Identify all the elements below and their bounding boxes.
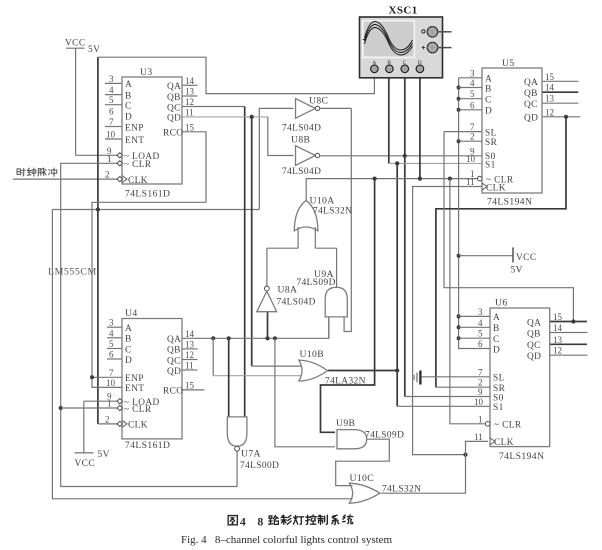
svg-text:14: 14: [185, 329, 195, 339]
svg-text:U10B: U10B: [300, 349, 325, 360]
svg-text:74LS04D: 74LS04D: [282, 124, 321, 134]
svg-text:S0: S0: [493, 393, 504, 403]
svg-text:C: C: [125, 345, 132, 355]
svg-text:QD: QD: [167, 367, 181, 377]
wire QA-U4 branch down to U9B input 2: [275, 338, 335, 447]
svg-text:CLK: CLK: [494, 438, 514, 448]
svg-text:D: D: [125, 356, 132, 366]
inverter U8C 74LS04D: [282, 96, 328, 134]
scope terminal C: [401, 60, 409, 72]
svg-text:5: 5: [109, 339, 114, 349]
svg-text:15: 15: [545, 72, 555, 82]
OR gate U10C 74LS32N (pointing right): [349, 473, 421, 503]
wire net U5 SL pin 7 from U6 QA feedback: [444, 132, 576, 324]
NAND gate U7A 74LS00D (pointing down): [227, 417, 279, 471]
svg-text:U3: U3: [140, 67, 153, 78]
wire VCC rail to U3 ~LOAD pin 9: [76, 154, 118, 156]
U6 CLK edge marker: [490, 438, 495, 445]
svg-text:CLK: CLK: [128, 176, 148, 186]
svg-text:6: 6: [109, 350, 114, 360]
wire U8A output to U10A input frame: [267, 227, 337, 286]
svg-text:QD: QD: [167, 114, 181, 124]
svg-text:VCC: VCC: [516, 253, 536, 263]
svg-text:RCO: RCO: [163, 129, 183, 139]
svg-text:SL: SL: [493, 374, 505, 384]
svg-text:QB: QB: [524, 89, 538, 99]
wire net QA U4 (pin 14) with branches: [182, 317, 329, 341]
svg-text:14: 14: [545, 83, 555, 93]
svg-text:7: 7: [470, 122, 475, 132]
svg-text:A: A: [493, 313, 500, 323]
svg-text:12: 12: [553, 346, 562, 356]
svg-text:6: 6: [109, 106, 114, 116]
svg-text:QC: QC: [527, 341, 541, 351]
svg-text:SR: SR: [485, 138, 498, 148]
svg-text:4: 4: [470, 78, 475, 88]
wire net QD U5 to U6 SR pin 2: [436, 115, 581, 388]
svg-text:7: 7: [109, 117, 114, 127]
wire bus y=209.5 from x=52.4 to U8C input riser: [52, 209, 259, 211]
scope knob 2: [422, 42, 438, 52]
svg-text:10: 10: [474, 397, 484, 407]
U5 ~CLR bubble: [477, 176, 482, 181]
node: clock pulse input wire to U3 CLK pin 2: [13, 178, 118, 180]
svg-text:15: 15: [185, 380, 195, 390]
shift register U5 74LS194N: [466, 58, 555, 208]
counter U3 74LS161D: [105, 67, 195, 200]
svg-text:15: 15: [553, 312, 563, 322]
wire net U8C input vertical from loop: [97, 57, 99, 209]
svg-text:14: 14: [185, 76, 195, 86]
svg-text:4: 4: [240, 517, 246, 529]
svg-text:~ CLR: ~ CLR: [494, 421, 522, 431]
wire net RCO U3 to U4 ENP/ENT: [90, 132, 206, 388]
svg-text:QB: QB: [167, 346, 181, 356]
wire net QC U3 down to U7A input 2: [182, 107, 245, 417]
U4 ~CLR bubble: [117, 405, 123, 410]
svg-text:CLK: CLK: [128, 421, 148, 431]
svg-text:VCC: VCC: [75, 459, 95, 469]
wire scope terminal B vertical to S1 line: [388, 70, 390, 163]
svg-text:1: 1: [107, 399, 112, 409]
svg-text:QD: QD: [524, 114, 538, 124]
wire net scope-A / U8C input loop (top): [98, 57, 375, 93]
wire scope terminal C vertical / S0 chain to U6 S0: [405, 70, 490, 397]
svg-text:74LS04D: 74LS04D: [277, 298, 316, 308]
wire U8C input riser: [259, 108, 293, 209]
svg-text:D: D: [125, 113, 132, 123]
svg-text:12: 12: [185, 350, 194, 360]
wire U6 output stubs: [550, 322, 588, 356]
svg-text:11: 11: [474, 432, 483, 442]
svg-text:ENP: ENP: [125, 123, 144, 133]
svg-text:10: 10: [466, 154, 476, 164]
svg-text:QA: QA: [167, 335, 181, 345]
svg-text:1: 1: [478, 414, 483, 424]
svg-text:7: 7: [109, 368, 114, 378]
svg-text:74LS09D: 74LS09D: [365, 431, 404, 441]
AND gate U9B 74LS09D (pointing right): [336, 418, 404, 449]
wire ~CLR branch down to U6 ~CLR pin 1: [450, 179, 486, 424]
shift register U6 74LS194N: [474, 298, 563, 463]
svg-text:74LS161D: 74LS161D: [125, 189, 170, 200]
U4 CLK bubble and edge marker: [117, 421, 123, 426]
svg-text:QC: QC: [167, 356, 181, 366]
svg-text:~ CLR: ~ CLR: [124, 160, 152, 170]
U3 ~CLR bubble: [117, 161, 123, 166]
svg-text:5V: 5V: [98, 450, 110, 460]
wire QA-U4 branch to U7A input 1: [228, 338, 230, 417]
svg-text:CLK: CLK: [486, 183, 506, 193]
wire QA-U4 branch to U10B input 2: [213, 338, 301, 375]
svg-text:12: 12: [545, 107, 554, 117]
svg-text:U10C: U10C: [350, 473, 375, 484]
wire U3 input stubs pins 3 4 5 7 10: [105, 83, 122, 139]
VCC rail (top-left 5V): [66, 48, 85, 155]
svg-text:U8B: U8B: [291, 135, 310, 146]
wire U10C output riser to U6 CLK pin 11: [381, 441, 488, 493]
node label: clock pulse (Chinese): [17, 168, 57, 176]
wire QD-U3 branch down to U10B input 1: [252, 117, 302, 366]
svg-text:4: 4: [109, 85, 114, 95]
oscilloscope XSC1: [360, 5, 452, 78]
svg-text:U10A: U10A: [310, 196, 335, 207]
caption: Fig.4 8-channel colorful lights control (Chinese, bold): [228, 515, 353, 529]
svg-text:D: D: [485, 107, 492, 117]
wire chain x=97.9 down to U4 CLK pin 2: [98, 210, 118, 424]
wire U9A output up to U10A input 2: [336, 248, 338, 287]
inverter U8B 74LS04D: [282, 135, 321, 177]
svg-text:13: 13: [185, 339, 195, 349]
inverter U8A 74LS04D (pointing up): [257, 285, 316, 312]
svg-text:3: 3: [109, 74, 114, 84]
svg-text:8: 8: [258, 517, 264, 529]
svg-text:74LS09D: 74LS09D: [297, 278, 336, 288]
scope terminal A: [371, 60, 379, 72]
wire bus x=458.6 A-D inputs + VCC: [457, 78, 490, 349]
svg-text:2: 2: [470, 132, 475, 142]
wire ground to U6 SL pin 7: [421, 376, 490, 378]
svg-text:9: 9: [478, 387, 483, 397]
wire scope terminal D vertical: [419, 70, 421, 179]
svg-text:74LS32N: 74LS32N: [313, 207, 352, 217]
svg-text:QA: QA: [527, 318, 541, 328]
svg-text:13: 13: [185, 87, 195, 97]
OR gate U10B 74LS32N (pointing right): [299, 349, 366, 387]
U6 ~CLR bubble: [485, 422, 490, 427]
AND gate U9A 74LS09D (pointing up): [297, 269, 348, 317]
svg-text:15: 15: [185, 122, 195, 132]
wire U4 input stubs pins 3 4 5 6: [107, 327, 122, 359]
wire S1 chain down to U6 S1: [395, 163, 490, 406]
svg-text:QB: QB: [167, 93, 181, 103]
wire net S0: U8B output to U5 S0 pin 9: [320, 154, 482, 158]
wire ~CLR branch to U9B input 1: [321, 179, 375, 433]
svg-text:4: 4: [109, 328, 114, 338]
svg-text:VCC: VCC: [65, 39, 85, 49]
svg-text:74LS194N: 74LS194N: [499, 451, 544, 462]
svg-text:11: 11: [185, 107, 194, 117]
svg-text:12: 12: [185, 97, 194, 107]
svg-text:QD: QD: [527, 352, 541, 362]
U5 CLK edge marker: [482, 183, 487, 190]
svg-text:A: A: [485, 75, 492, 85]
svg-text:B: B: [125, 335, 132, 345]
svg-text:3: 3: [109, 318, 114, 328]
svg-text:2: 2: [105, 414, 110, 424]
svg-text:U9B: U9B: [336, 418, 355, 429]
junction x=97.9 y=209.5: [96, 207, 100, 211]
wire U3 output stubs QA QB: [182, 85, 198, 96]
svg-text:Fig. 4 8–channel colorful li: Fig. 4 8–channel colorful lights control…: [181, 534, 393, 546]
svg-text:5V: 5V: [88, 45, 100, 55]
svg-text:C: C: [493, 335, 500, 345]
svg-text:XSC1: XSC1: [389, 5, 418, 17]
wire net QD U3 to U8B input: [182, 115, 294, 156]
svg-text:QB: QB: [527, 329, 541, 339]
svg-text:5: 5: [478, 329, 483, 339]
svg-text:ENT: ENT: [125, 136, 144, 146]
svg-text:A: A: [125, 80, 132, 90]
label VCC (bottom-left): [75, 450, 110, 469]
svg-text:74LS04D: 74LS04D: [282, 167, 321, 177]
label VCC (right 5V tick): [511, 253, 537, 276]
scope knob stub wires: [438, 31, 452, 33]
wire U4 output stubs QB QC QD RCO: [182, 349, 205, 390]
svg-text:U4: U4: [125, 308, 138, 319]
wire net ~CLR: U10A output to U5 pin 1: [306, 177, 478, 201]
OR gate U10A 74LS32N (pointing up): [294, 196, 352, 231]
svg-text:SL: SL: [485, 128, 497, 138]
svg-text:ENP: ENP: [125, 374, 144, 384]
VCC tick (right, 5V): [459, 247, 513, 262]
svg-text:5V: 5V: [511, 266, 523, 276]
wire U10B output to S1 chain: [328, 370, 397, 372]
VCC rail (bottom-left 5V) to U4 ~LOAD pin 9: [75, 401, 118, 453]
wire U5 output stubs QA QB QC: [542, 81, 578, 103]
svg-text:ENT: ENT: [125, 384, 144, 394]
scope terminal D: [416, 60, 424, 72]
svg-text:S1: S1: [485, 161, 496, 171]
svg-text:10: 10: [106, 378, 116, 388]
wire net S1 to U5 pin 10: [389, 161, 482, 165]
scope knob 1: [422, 27, 438, 37]
svg-text:QC: QC: [167, 103, 181, 113]
svg-text:~ CLR: ~ CLR: [124, 405, 152, 415]
svg-text:3: 3: [478, 307, 483, 317]
wire bus stubs to U5 pins A B C D and SR: [459, 78, 482, 141]
svg-text:6: 6: [470, 100, 475, 110]
svg-text:14: 14: [553, 323, 563, 333]
svg-text:74LS194N: 74LS194N: [487, 197, 532, 208]
svg-text:U5: U5: [502, 58, 515, 69]
wire U9A input 1 from QA-U4 line: [328, 317, 330, 338]
svg-text:C: C: [125, 102, 132, 112]
label VCC (top-left): [65, 39, 100, 56]
svg-text:74LS00D: 74LS00D: [240, 461, 279, 471]
svg-text:C: C: [485, 96, 492, 106]
svg-text:74LS32N: 74LS32N: [382, 485, 421, 495]
U3 ~LOAD bubble: [117, 153, 123, 158]
svg-text:U7A: U7A: [241, 449, 261, 460]
svg-text:U6: U6: [495, 298, 508, 309]
svg-text:D: D: [493, 345, 500, 355]
svg-text:QA: QA: [167, 82, 181, 92]
scope screen with waveform: [363, 21, 415, 58]
U3 CLK bubble and edge-triggered marker: [117, 177, 123, 182]
counter U4 74LS161D: [105, 308, 195, 451]
svg-text:11: 11: [466, 177, 475, 187]
svg-text:11: 11: [185, 361, 194, 371]
svg-text:2: 2: [105, 170, 110, 180]
svg-text:3: 3: [470, 68, 475, 78]
U4 ~LOAD bubble: [117, 399, 123, 404]
svg-text:A: A: [125, 324, 132, 334]
svg-text:S1: S1: [493, 403, 504, 413]
svg-text:7: 7: [478, 367, 483, 377]
svg-text:5: 5: [109, 95, 114, 105]
svg-text:QC: QC: [524, 100, 538, 110]
wire left chain down to U10C input 2: [52, 210, 352, 499]
svg-text:13: 13: [545, 94, 555, 104]
svg-text:74LA32N: 74LA32N: [325, 377, 366, 387]
label LM555CM: [48, 267, 97, 278]
svg-text:1: 1: [107, 154, 112, 164]
ground symbol (left of U6 SL): [414, 371, 420, 385]
svg-text:74LS161D: 74LS161D: [125, 440, 170, 451]
svg-text:13: 13: [553, 335, 563, 345]
wire net U7A output to U3/U4 ~CLR: [59, 163, 238, 486]
svg-text:U8C: U8C: [309, 96, 328, 107]
wire U9B output zigzag to U10C input 1: [336, 439, 390, 485]
svg-text:B: B: [125, 91, 132, 101]
wire QA-U4 branch up to U8A input: [267, 312, 269, 339]
svg-text:LM555CM: LM555CM: [48, 267, 97, 278]
svg-text:B: B: [493, 324, 500, 334]
wire net CLK shared: U5 CLK / U6 CLK / U10C out: [413, 187, 482, 457]
svg-text:10: 10: [106, 130, 116, 140]
svg-text:RCO: RCO: [163, 387, 183, 397]
caption: Fig. 4 english: [181, 534, 393, 546]
svg-text:5: 5: [470, 89, 475, 99]
svg-text:B: B: [485, 84, 492, 94]
wire U8C output down to U9A input 2: [320, 108, 352, 331]
svg-text:U8A: U8A: [278, 285, 298, 296]
scope terminal B: [386, 60, 394, 72]
svg-text:QA: QA: [524, 78, 538, 88]
wire bus stubs to U6 pins A B C: [459, 316, 490, 338]
svg-text:4: 4: [478, 318, 483, 328]
svg-text:6: 6: [478, 339, 483, 349]
